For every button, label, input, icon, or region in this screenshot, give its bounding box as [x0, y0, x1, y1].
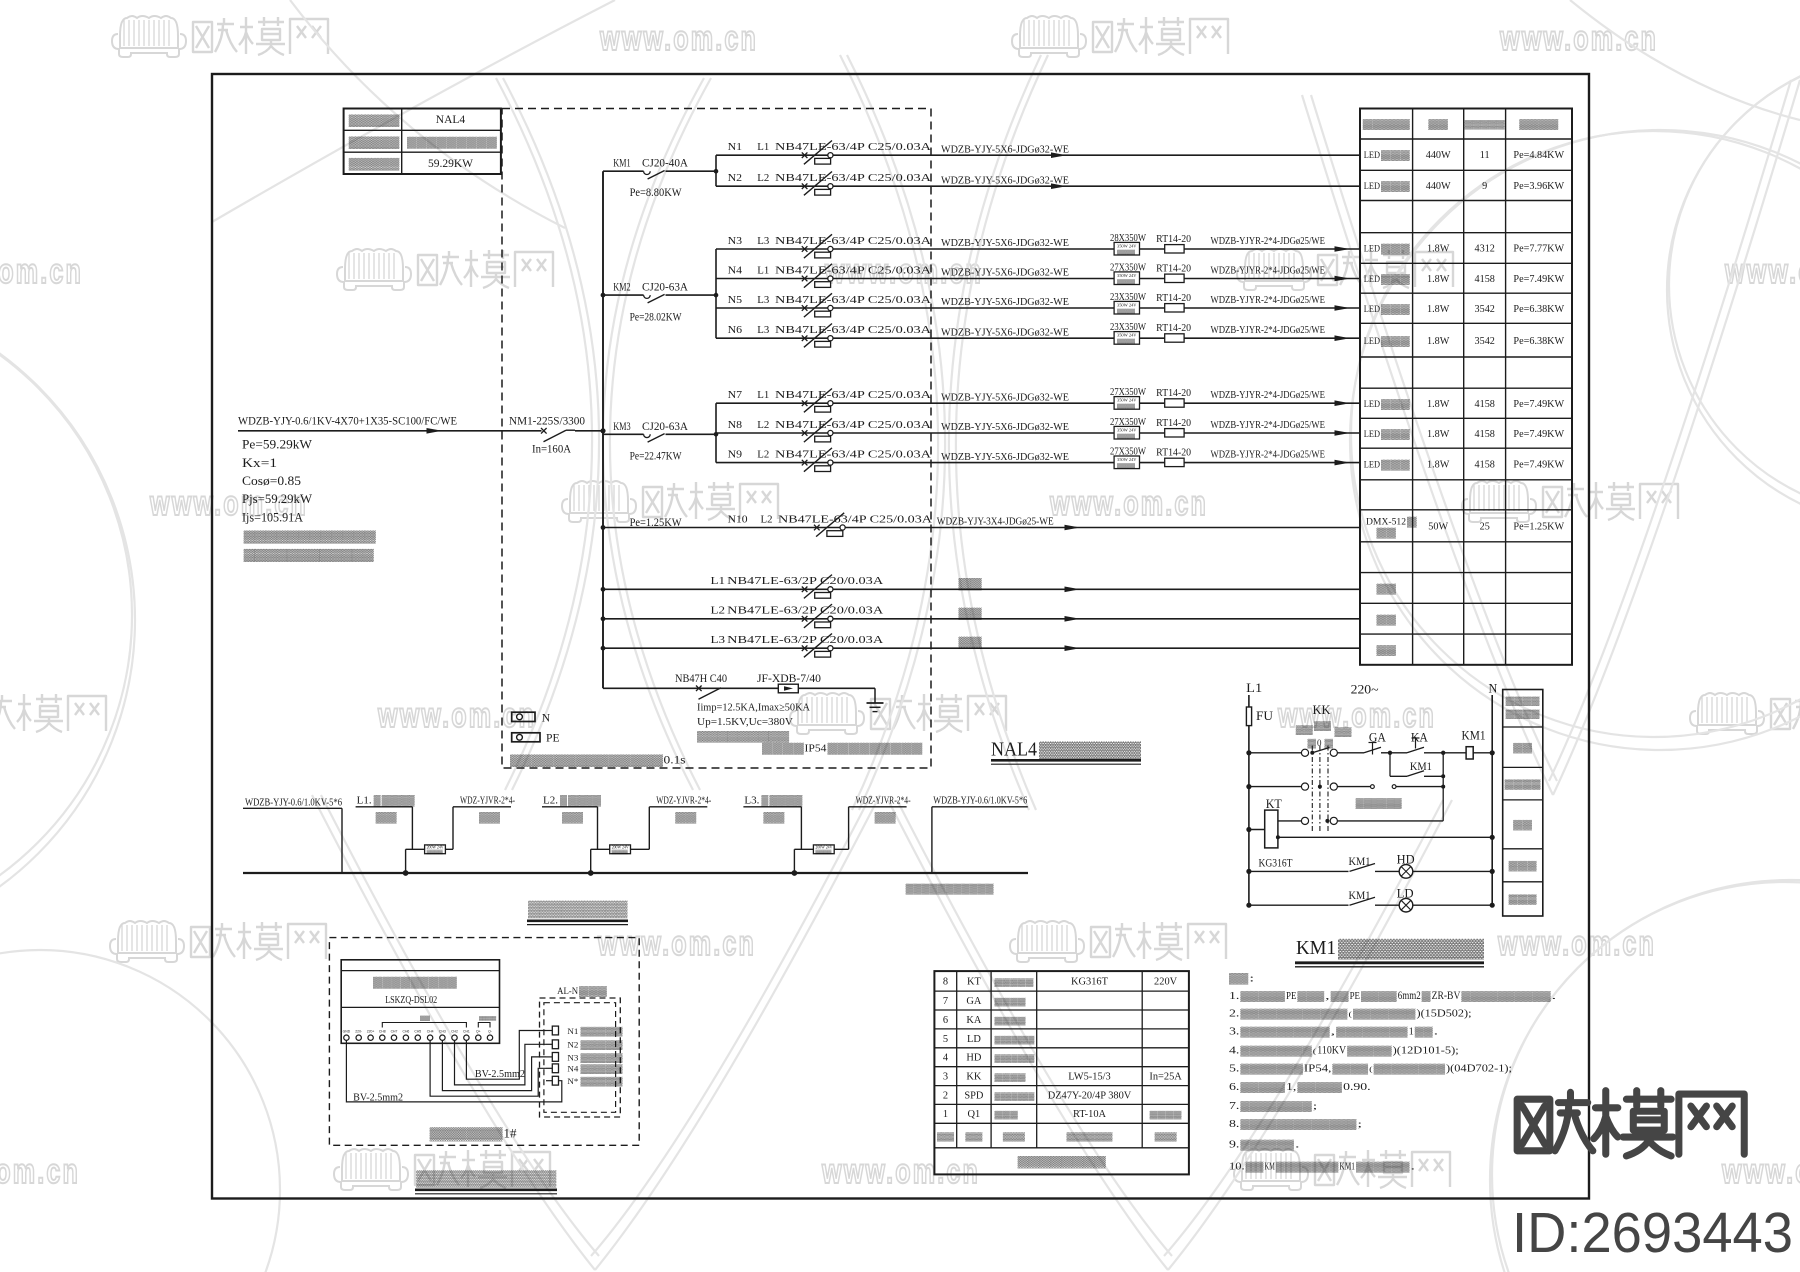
svg-text:NB47LE-63/2P C20/0.03A: NB47LE-63/2P C20/0.03A: [727, 634, 883, 646]
incoming arrow: [427, 428, 443, 434]
svg-text:▓▓▓▓: ▓▓▓▓: [568, 795, 601, 807]
svg-text:▓▓▓: ▓▓▓: [1509, 894, 1537, 905]
svg-text:1.8W: 1.8W: [1427, 274, 1450, 285]
svg-text:220~: 220~: [1351, 683, 1379, 697]
svg-text:▓▓: ▓▓: [1229, 973, 1249, 985]
svg-text:▓▓▓▓: ▓▓▓▓: [1519, 119, 1558, 130]
svg-text:WDZ-YJVR-2*4-: WDZ-YJVR-2*4-: [656, 796, 711, 807]
svg-text:WDZB-YJYR-2*4-JDGø25/WE: WDZB-YJYR-2*4-JDGø25/WE: [1211, 324, 1326, 336]
svg-text:Pe=22.47KW: Pe=22.47KW: [630, 450, 682, 463]
svg-text:▓▓▓: ▓▓▓: [1381, 304, 1411, 315]
svg-text:59.29KW: 59.29KW: [428, 158, 473, 170]
svg-text:NB47H C40: NB47H C40: [675, 673, 727, 685]
svg-text:CJ20-40A: CJ20-40A: [642, 158, 689, 170]
rung3 KT contacts: [1278, 817, 1443, 824]
svg-text:KT: KT: [1266, 797, 1283, 811]
svg-text:Pe=7.49KW: Pe=7.49KW: [1513, 274, 1564, 285]
svg-text:▓▓: ▓▓: [937, 1132, 954, 1142]
svg-text:▓▓: ▓▓: [1415, 1027, 1433, 1038]
svg-text:NB47LE-63/4P C25/0.03A: NB47LE-63/4P C25/0.03A: [775, 448, 931, 460]
svg-text:9.: 9.: [1229, 1140, 1239, 1151]
svg-text:▓▓▓▓▓: ▓▓▓▓▓: [581, 1026, 624, 1037]
svg-text:L2.: L2.: [543, 796, 558, 807]
svg-text:KK: KK: [966, 1072, 982, 1083]
svg-text:1.8W: 1.8W: [1427, 399, 1450, 410]
auxiliary contact KM1 self-hold branch: [1390, 751, 1445, 821]
svg-text:▓▓▓▓▓▓▓▓▓▓▓▓▓▓: ▓▓▓▓▓▓▓▓▓▓▓▓▓▓: [510, 754, 663, 768]
svg-text:LED: LED: [1364, 150, 1380, 161]
feeder N4 LED像素灯 27X350W: [716, 262, 1360, 288]
svg-text:6: 6: [943, 1015, 948, 1026]
svg-text:▓▓▓▓▓▓▓▓▓▓▓▓▓: ▓▓▓▓▓▓▓▓▓▓▓▓▓: [1240, 1119, 1356, 1130]
svg-text:KM1: KM1: [1296, 937, 1336, 959]
svg-text:▓▓▓▓: ▓▓▓▓: [995, 1016, 1027, 1026]
svg-text:Ijs=105.91A: Ijs=105.91A: [242, 510, 303, 524]
svg-text:▓▓: ▓▓: [675, 812, 697, 824]
svg-text:Pe=28.02KW: Pe=28.02KW: [630, 311, 682, 324]
svg-text:WDZB-YJY-5X6-JDGø32-WE: WDZB-YJY-5X6-JDGø32-WE: [941, 391, 1069, 403]
svg-text:4158: 4158: [1475, 399, 1495, 410]
svg-text:▓: ▓: [761, 795, 768, 807]
svg-text:10.: 10.: [1229, 1162, 1245, 1173]
svg-text:Pe=6.38KW: Pe=6.38KW: [1513, 304, 1564, 315]
svg-text:▓▓: ▓▓: [479, 812, 501, 824]
svg-text:N8: N8: [728, 419, 743, 431]
svg-text:4158: 4158: [1475, 274, 1495, 285]
svg-text:L3: L3: [757, 294, 769, 306]
svg-text:L3: L3: [757, 235, 769, 247]
svg-text:▓: ▓: [374, 795, 381, 807]
svg-text:▓▓▓▓▓: ▓▓▓▓▓: [1240, 1082, 1285, 1093]
svg-text:▓▓▓▓▓▓▓▓: ▓▓▓▓▓▓▓▓: [1240, 1101, 1311, 1112]
svg-text:▓▓▓▓▓: ▓▓▓▓▓: [581, 1076, 624, 1087]
svg-text:1#: 1#: [504, 1127, 518, 1141]
surge data text: [697, 703, 810, 743]
svg-text:3542: 3542: [1475, 336, 1495, 347]
contactor KM3 CJ20-63A branch: [603, 421, 716, 463]
svg-text:KM: KM: [1265, 1162, 1275, 1173]
svg-text:FU: FU: [1256, 709, 1273, 723]
svg-text:350W 24V: 350W 24V: [1117, 428, 1137, 433]
svg-text:▓▓: ▓▓: [875, 812, 897, 824]
notes 说明 block: [1229, 973, 1556, 1173]
svg-text:50W: 50W: [1428, 521, 1448, 532]
svg-text:L1: L1: [757, 141, 769, 153]
svg-text:▓▓▓: ▓▓▓: [1381, 150, 1411, 161]
svg-text:9: 9: [1482, 181, 1487, 192]
svg-text:,: ,: [1325, 991, 1330, 1001]
svg-text:LED: LED: [1364, 274, 1380, 285]
selector switch KK with positions: [1296, 703, 1352, 832]
feeder N9 LED像素灯 27X350W: [716, 446, 1360, 472]
feeder N5 LED像素灯 23X350W: [716, 291, 1360, 317]
svg-text:PE: PE: [546, 732, 560, 745]
svg-text:WDZB-YJY-5X6-JDGø32-WE: WDZB-YJY-5X6-JDGø32-WE: [941, 237, 1069, 249]
svg-text:▓▓▓: ▓▓▓: [1509, 861, 1537, 872]
svg-text:▓▓▓▓▓▓▓: ▓▓▓▓▓▓▓: [1338, 937, 1485, 960]
svg-text:▓▓▓▓▓▓▓▓▓: ▓▓▓▓▓▓▓▓▓: [528, 900, 628, 919]
feeder N1 LED光束灯: [716, 141, 1360, 165]
svg-text:▓▓: ▓▓: [959, 578, 984, 591]
svg-text:JF-XDB-7/40: JF-XDB-7/40: [757, 673, 821, 685]
svg-text:;: ;: [1313, 1101, 1318, 1111]
svg-text:▓▓▓▓▓▓▓▓▓▓▓▓: ▓▓▓▓▓▓▓▓▓▓▓▓: [244, 549, 375, 563]
svg-text:▓▓▓: ▓▓▓: [1381, 429, 1411, 440]
svg-text:▓▓▓▓▓▓▓: ▓▓▓▓▓▓▓: [1276, 1162, 1339, 1173]
svg-text:RT14-20: RT14-20: [1156, 292, 1191, 304]
svg-text:LED: LED: [1364, 399, 1380, 410]
svg-text:WDZB-YJYR-2*4-JDGø25/WE: WDZB-YJYR-2*4-JDGø25/WE: [1211, 265, 1326, 277]
svg-text:NB47LE-63/2P C20/0.03A: NB47LE-63/2P C20/0.03A: [727, 605, 883, 617]
inlet label L1 L,N,接地线 进线: [356, 795, 415, 850]
ground symbol: [867, 688, 884, 711]
svg-text:IP54: IP54: [805, 743, 828, 755]
svg-text:LED: LED: [1364, 244, 1380, 255]
svg-text:WDZ-YJVR-2*4-: WDZ-YJVR-2*4-: [460, 796, 515, 807]
svg-text:WDZB-YJYR-2*4-JDGø25/WE: WDZB-YJYR-2*4-JDGø25/WE: [1211, 389, 1326, 401]
svg-text:▓▓▓▓▓▓: ▓▓▓▓▓▓: [1039, 741, 1142, 761]
svg-text:Pe=6.38KW: Pe=6.38KW: [1513, 336, 1564, 347]
svg-text:▓▓▓▓▓: ▓▓▓▓▓: [1067, 1132, 1113, 1142]
KM3 group bus: [715, 403, 717, 462]
controller box 回路智能终端控制器 LSKZQ-DSL02: [341, 960, 499, 1044]
svg-text:WDZB-YJYR-2*4-JDGø25/WE: WDZB-YJYR-2*4-JDGø25/WE: [1211, 294, 1326, 306]
svg-text:▓▓▓: ▓▓▓: [1381, 460, 1411, 471]
svg-text:▓▓: ▓▓: [763, 812, 785, 824]
svg-text:▓▓▓▓▓▓▓▓: ▓▓▓▓▓▓▓▓: [1374, 1064, 1445, 1075]
svg-text:220-: 220-: [355, 1030, 362, 1034]
outgoing label WDZB-YJY-0.6/1.0KV-5*6 right: [932, 796, 1028, 874]
svg-text:1.8W: 1.8W: [1427, 429, 1450, 440]
svg-text:▓▓: ▓▓: [1513, 820, 1532, 831]
svg-text:▓▓▓: ▓▓▓: [1381, 336, 1411, 347]
svg-text:HD: HD: [966, 1053, 982, 1064]
svg-text:▓▓: ▓▓: [376, 812, 398, 824]
svg-text:NB47LE-63/4P C25/0.03A: NB47LE-63/4P C25/0.03A: [775, 294, 931, 306]
svg-text:6mm2: 6mm2: [1398, 990, 1421, 1002]
svg-text:L2: L2: [757, 172, 769, 184]
svg-text:N9: N9: [728, 448, 743, 460]
main vertical bus: [602, 171, 604, 688]
svg-text:LW5-15/3: LW5-15/3: [1068, 1072, 1111, 1083]
svg-text:N2: N2: [567, 1040, 578, 1050]
svg-text:▓▓▓: ▓▓▓: [995, 1110, 1019, 1120]
svg-text:Q1: Q1: [968, 1109, 981, 1120]
svg-text:▓▓: ▓▓: [1513, 743, 1532, 754]
KT output wire to N: [1276, 835, 1495, 840]
incoming feeder wire: [238, 430, 542, 432]
svg-text:2: 2: [943, 1090, 948, 1101]
svg-text:2.: 2.: [1229, 1009, 1239, 1020]
svg-text:Pe=1.25KW: Pe=1.25KW: [1513, 521, 1564, 532]
svg-text:▓▓: ▓▓: [1331, 991, 1349, 1002]
svg-text:4158: 4158: [1475, 429, 1495, 440]
svg-text:350W 24V: 350W 24V: [1117, 273, 1137, 278]
svg-text:▓▓▓▓: ▓▓▓▓: [1506, 709, 1541, 720]
svg-text:▓▓▓▓▓▓▓▓▓▓: ▓▓▓▓▓▓▓▓▓▓: [1240, 1027, 1329, 1038]
svg-text:440W: 440W: [1426, 181, 1451, 192]
svg-text:KA: KA: [966, 1015, 982, 1026]
svg-text:▓▓: ▓▓: [959, 637, 984, 650]
svg-text:CH5: CH5: [414, 1030, 421, 1034]
feeder N6 LED像素灯 23X350W: [716, 321, 1360, 347]
svg-text:N7: N7: [728, 389, 743, 401]
feeder N7 LED像素灯 27X350W: [716, 386, 1360, 412]
svg-text:▓▓▓▓▓▓▓▓▓: ▓▓▓▓▓▓▓▓▓: [407, 137, 497, 149]
wire breaker to bus: [575, 430, 603, 432]
svg-text:RT14-20: RT14-20: [1156, 417, 1191, 429]
svg-text:L3.: L3.: [744, 796, 759, 807]
svg-text:▓▓▓▓▓: ▓▓▓▓▓: [581, 1052, 624, 1063]
svg-text:NB47LE-63/4P C25/0.03A: NB47LE-63/4P C25/0.03A: [775, 389, 931, 401]
svg-text:▓▓▓▓▓▓: ▓▓▓▓▓▓: [1240, 1140, 1294, 1151]
svg-text:NB47LE-63/4P C25/0.03A: NB47LE-63/4P C25/0.03A: [778, 513, 932, 525]
tap riser L3: [794, 845, 848, 873]
svg-text:▓▓▓: ▓▓▓: [1381, 244, 1411, 255]
svg-text:WDZB-YJY-5X6-JDGø32-WE: WDZB-YJY-5X6-JDGø32-WE: [941, 143, 1069, 155]
svg-text:N10: N10: [728, 513, 749, 525]
svg-text:L3: L3: [711, 634, 726, 646]
svg-text:1,: 1,: [1286, 1082, 1296, 1093]
svg-text:4: 4: [943, 1053, 949, 1064]
svg-text:▓▓▓▓▓▓▓: ▓▓▓▓▓▓▓: [995, 1035, 1035, 1045]
svg-text:L1: L1: [757, 389, 769, 401]
control wire CH4: [430, 1040, 546, 1096]
svg-text:▓▓▓▓: ▓▓▓▓: [1505, 779, 1541, 790]
svg-text:▓▓: ▓▓: [1314, 721, 1332, 732]
svg-text:L2: L2: [757, 448, 769, 460]
svg-text:RT-10A: RT-10A: [1073, 1109, 1107, 1120]
svg-text:▓▓: ▓▓: [420, 1015, 430, 1022]
stop button GA: [1364, 731, 1390, 755]
svg-text:1.8W: 1.8W: [1427, 304, 1450, 315]
title NAL4配电箱系统图: [991, 740, 1142, 765]
svg-text:3.: 3.: [1229, 1027, 1239, 1038]
svg-text:4312: 4312: [1475, 244, 1495, 255]
svg-text:▓▓▓▓▓▓▓▓▓: ▓▓▓▓▓▓▓▓▓: [828, 743, 923, 755]
svg-text:▓▓▓▓▓▓: ▓▓▓▓▓▓: [1356, 1162, 1410, 1173]
svg-text:7.: 7.: [1229, 1101, 1239, 1112]
load schedule table: [1360, 109, 1572, 665]
inlet label L2 L,N,接地线 进线: [542, 795, 601, 850]
svg-text:▓▓▓▓▓: ▓▓▓▓▓: [349, 135, 400, 149]
svg-text:CJ20-63A: CJ20-63A: [642, 282, 689, 294]
svg-text:AL-N: AL-N: [557, 986, 578, 997]
svg-text:KT: KT: [967, 977, 982, 988]
surge protection branch NB47H C40 + JF-XDB-7/40: [603, 673, 875, 699]
svg-text:25: 25: [1480, 521, 1490, 532]
note 说明 由垃圾站屋顶灯饰专用箱变引来: [244, 530, 377, 563]
svg-text:N3: N3: [567, 1052, 579, 1062]
svg-text:L1: L1: [1246, 681, 1262, 695]
svg-text:Up=1.5KV,Uc=380V: Up=1.5KV,Uc=380V: [697, 717, 793, 728]
contactor KM1 CJ20-40A branch: [603, 158, 716, 199]
svg-text:WDZB-YJYR-2*4-JDGø25/WE: WDZB-YJYR-2*4-JDGø25/WE: [1211, 419, 1326, 431]
feeder N10 DMX-512 branch: [601, 513, 1360, 537]
svg-text:NB47LE-63/4P C25/0.03A: NB47LE-63/4P C25/0.03A: [775, 264, 931, 276]
svg-text:NB47LE-63/4P C25/0.03A: NB47LE-63/4P C25/0.03A: [775, 419, 931, 431]
junction node L2: [588, 870, 594, 876]
svg-text:▓▓▓▓▓: ▓▓▓▓▓: [1347, 1046, 1392, 1057]
spare feeder L2 NB47LE-63/2P: [601, 616, 606, 621]
svg-text:Pe=7.49KW: Pe=7.49KW: [1513, 460, 1564, 471]
spare feeder L3 NB47LE-63/2P: [601, 646, 606, 651]
svg-text:▓▓: ▓▓: [1155, 1132, 1177, 1142]
svg-text:▓▓▓▓▓▓▓: ▓▓▓▓▓▓▓: [995, 1091, 1035, 1101]
svg-text:KG316T: KG316T: [1071, 977, 1109, 988]
svg-text:N: N: [542, 712, 551, 725]
svg-text:KM1: KM1: [1462, 729, 1486, 743]
svg-text:110KV: 110KV: [1317, 1045, 1346, 1057]
rung4 KM1 contact with HD lamp: [1246, 853, 1494, 879]
svg-text:,: ,: [1331, 1027, 1336, 1037]
svg-text:NB47LE-63/4P C25/0.03A: NB47LE-63/4P C25/0.03A: [775, 324, 931, 336]
svg-text:KM3: KM3: [613, 421, 631, 433]
drawing border frame: [212, 74, 1589, 1199]
rung2 remote control reserve: [1246, 783, 1445, 809]
svg-text:350W 24V: 350W 24V: [1117, 244, 1137, 249]
svg-text:Pe=59.29kW: Pe=59.29kW: [242, 438, 312, 452]
svg-text:WDZB-YJYR-2*4-JDGø25/WE: WDZB-YJYR-2*4-JDGø25/WE: [1211, 449, 1326, 461]
svg-text:ID:2693443: ID:2693443: [1512, 1201, 1793, 1265]
svg-text:220V: 220V: [1154, 977, 1178, 988]
svg-text:Q-: Q-: [488, 1030, 492, 1034]
svg-text:RT14-20: RT14-20: [1156, 446, 1191, 458]
svg-text:CH8: CH8: [379, 1030, 386, 1034]
svg-text:IP54,: IP54,: [1304, 1063, 1332, 1075]
svg-text:WDZB-YJY-0.6/1.0KV-5*6: WDZB-YJY-0.6/1.0KV-5*6: [245, 798, 342, 809]
svg-text:RT14-20: RT14-20: [1156, 322, 1191, 334]
svg-text:▓▓▓▓: ▓▓▓▓: [382, 795, 415, 807]
svg-text:L1: L1: [711, 575, 726, 587]
svg-text:N1: N1: [567, 1026, 578, 1036]
neutral rail N: [1489, 682, 1498, 906]
control wire CH1: [466, 1031, 546, 1080]
svg-text:In=160A: In=160A: [532, 444, 571, 456]
panel dashed enclosure box: [502, 109, 931, 769]
svg-text:WDZB-YJY-5X6-JDGø32-WE: WDZB-YJY-5X6-JDGø32-WE: [941, 267, 1069, 279]
svg-text:3: 3: [943, 1072, 948, 1083]
svg-text:▓▓▓▓▓▓▓▓▓▓: ▓▓▓▓▓▓▓▓▓▓: [416, 1170, 556, 1188]
bus junction node at incoming: [600, 428, 605, 433]
svg-text:▓: ▓: [1422, 991, 1431, 1002]
svg-text:Pjs=59.29kW: Pjs=59.29kW: [242, 492, 312, 506]
svg-text:4.: 4.: [1229, 1046, 1239, 1057]
svg-text:.: .: [1434, 1027, 1439, 1037]
svg-text:▓▓▓▓▓▓▓: ▓▓▓▓▓▓▓: [1353, 1009, 1416, 1020]
fuse FU: [1246, 707, 1273, 726]
svg-text:GA: GA: [966, 996, 982, 1007]
svg-text:CH4: CH4: [427, 1030, 434, 1034]
svg-text:N3: N3: [728, 235, 743, 247]
svg-text:Pe=4.84KW: Pe=4.84KW: [1513, 150, 1564, 161]
svg-text:▓▓▓: ▓▓▓: [1297, 991, 1324, 1002]
smart node dashed enclosure 智能强电节点1#: [329, 938, 639, 1146]
svg-text:▓: ▓: [560, 795, 567, 807]
svg-text:)(04D702-1);: )(04D702-1);: [1446, 1063, 1512, 1075]
svg-text:▓▓▓▓▓: ▓▓▓▓▓: [1363, 119, 1410, 130]
svg-text:Pe=1.25KW: Pe=1.25KW: [630, 516, 682, 529]
feeder N2 LED光束灯: [716, 172, 1360, 196]
title 强电控制系统-节点端: [415, 1170, 557, 1194]
svg-text:1.: 1.: [1229, 991, 1239, 1002]
info table 配电箱编号/位置/功率: [344, 109, 501, 175]
svg-text:3542: 3542: [1475, 304, 1495, 315]
junction node L3: [792, 870, 798, 876]
svg-text:KM2: KM2: [613, 282, 631, 294]
inlet label L3 L,N,接地线 进线: [743, 795, 802, 850]
svg-text:)(15D502);: )(15D502);: [1417, 1008, 1472, 1020]
svg-text:N4: N4: [567, 1064, 579, 1074]
svg-text:8.: 8.: [1229, 1119, 1239, 1130]
svg-text:▓▓: ▓▓: [562, 812, 584, 824]
svg-text:KG316T: KG316T: [1259, 858, 1293, 870]
incoming label WDZB-YJY-0.6/1.0KV-5*6 left: [243, 798, 342, 874]
tap riser L1: [406, 845, 453, 873]
AL-N distribution box dashed: [540, 986, 621, 1117]
title KM1二次接线原理图: [1295, 937, 1485, 967]
control wire CH2: [455, 1040, 547, 1085]
svg-text:4158: 4158: [1475, 460, 1495, 471]
svg-text:▓▓▓▓▓: ▓▓▓▓▓: [995, 978, 1035, 988]
svg-text:▓▓▓▓▓▓▓▓▓: ▓▓▓▓▓▓▓▓▓: [373, 977, 457, 989]
main breaker NM1-225S/3300: [509, 414, 585, 456]
svg-text:Q+: Q+: [476, 1030, 481, 1034]
svg-text:;: ;: [1358, 1119, 1363, 1129]
svg-text:▓▓: ▓▓: [1335, 727, 1353, 738]
svg-text:CH7: CH7: [391, 1030, 398, 1034]
svg-text:▓▓: ▓▓: [1428, 119, 1448, 130]
svg-text:WDZB-YJY-5X6-JDGø32-WE: WDZB-YJY-5X6-JDGø32-WE: [941, 421, 1069, 433]
svg-text:LD: LD: [967, 1034, 981, 1045]
svg-text:▓▓▓▓▓: ▓▓▓▓▓: [349, 114, 400, 128]
svg-text:N6: N6: [728, 324, 743, 336]
five-core cable demo bus: [243, 872, 1028, 874]
start button KA: [1388, 731, 1466, 756]
svg-text:PE: PE: [1350, 991, 1360, 1002]
svg-text:▓▓▓▓: ▓▓▓▓: [995, 1073, 1027, 1083]
svg-text:L2: L2: [757, 419, 769, 431]
svg-text:7: 7: [943, 996, 948, 1007]
spare feeder L1 NB47LE-63/2P: [601, 587, 606, 592]
svg-text:▓▓: ▓▓: [1377, 584, 1398, 595]
tap riser L2: [591, 845, 650, 873]
contactor KM2 CJ20-63A branch: [603, 282, 716, 324]
svg-text:N: N: [1489, 682, 1498, 696]
svg-text:▓▓▓▓▓▓▓▓▓▓: ▓▓▓▓▓▓▓▓▓▓: [1461, 991, 1550, 1002]
svg-text:▓▓▓▓▓: ▓▓▓▓▓: [1465, 119, 1506, 130]
feeder N3 LED像素灯 28X350W: [716, 232, 1360, 258]
svg-text:WDZ-YJVR-2*4-: WDZ-YJVR-2*4-: [856, 796, 911, 807]
title 五芯电缆接线示意图: [527, 900, 628, 925]
svg-text:L2: L2: [711, 605, 726, 617]
svg-text:▓▓▓▓▓▓▓: ▓▓▓▓▓▓▓: [1240, 1064, 1303, 1075]
svg-text:ZR-BV: ZR-BV: [1432, 990, 1461, 1002]
rung5 KM1 contact with LD lamp: [1246, 886, 1494, 912]
svg-text:▓▓: ▓▓: [965, 1132, 982, 1142]
svg-text:N2: N2: [728, 172, 743, 184]
svg-text:N*: N*: [567, 1076, 578, 1086]
svg-text:350W 24V: 350W 24V: [1117, 303, 1137, 308]
svg-text:N5: N5: [728, 294, 743, 306]
load summary text block: [242, 438, 312, 525]
svg-text:PE: PE: [1286, 991, 1296, 1002]
svg-text:.: .: [1552, 991, 1557, 1001]
svg-text:.: .: [1295, 1140, 1300, 1150]
svg-text:N4: N4: [728, 264, 743, 276]
svg-text:NB47LE-63/4P C25/0.03A: NB47LE-63/4P C25/0.03A: [775, 141, 931, 153]
svg-text:CH1: CH1: [463, 1030, 470, 1034]
